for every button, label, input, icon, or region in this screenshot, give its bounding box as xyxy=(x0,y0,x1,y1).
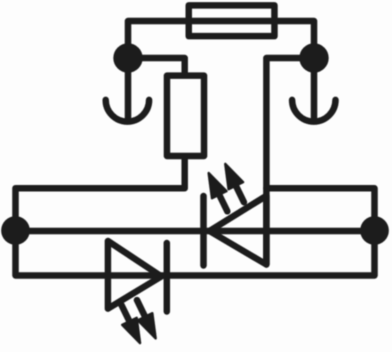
right plug-in contact hook xyxy=(292,100,335,122)
fuse F1 xyxy=(189,5,275,36)
wire: left node to resistor top xyxy=(128,58,185,73)
LED D1 cathode bar xyxy=(200,196,207,266)
wire: resistor bottom to left main node xyxy=(16,158,185,228)
LED D1 light arrow b xyxy=(218,160,251,205)
LED D2 triangle xyxy=(108,241,161,309)
wire: right top node to LED1 anode column xyxy=(266,58,314,265)
node: left main junction xyxy=(1,216,30,245)
left plug-in contact hook xyxy=(106,100,149,122)
wire: mid column branch to right main node xyxy=(266,188,374,228)
LED D2 cathode bar xyxy=(164,243,171,312)
node: right top junction xyxy=(299,43,328,72)
node: left top junction xyxy=(113,43,142,72)
wire: main bus xyxy=(16,228,375,235)
wire: left top node to left contact xyxy=(125,58,132,119)
LED D1 triangle xyxy=(210,196,267,265)
wire: right top node to right contact xyxy=(311,58,318,119)
wire: bottom bus xyxy=(16,232,375,276)
LED D2 light arrow a xyxy=(114,301,147,346)
node: right main junction xyxy=(360,216,389,245)
LED D2 light arrow b xyxy=(130,297,163,342)
resistor R1 xyxy=(167,76,204,156)
LED D1 light arrow a xyxy=(202,170,235,215)
wire: top loop left riser / fuse feed / right riser xyxy=(128,21,314,58)
